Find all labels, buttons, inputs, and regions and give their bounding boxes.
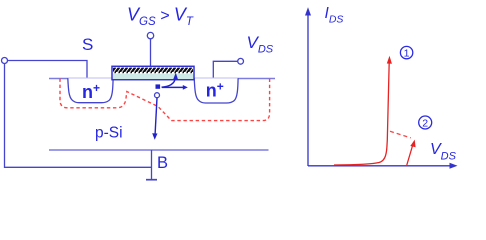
svg-text:2: 2 <box>422 117 428 129</box>
svg-text:1: 1 <box>404 47 410 59</box>
svg-text:B: B <box>157 154 168 172</box>
svg-text:p-Si: p-Si <box>95 125 123 142</box>
svg-text:S: S <box>82 35 93 54</box>
